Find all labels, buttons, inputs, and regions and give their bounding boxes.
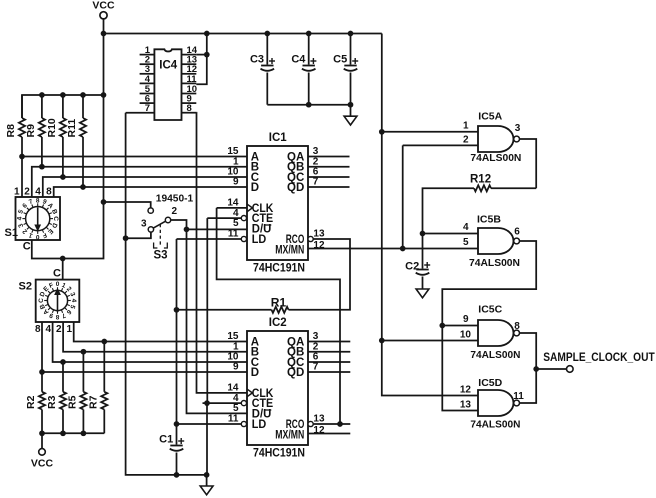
svg-text:R12: R12 (470, 174, 491, 186)
svg-text:2: 2 (56, 324, 62, 335)
wire IC5C pin10 (382, 340, 478, 342)
wire IC5C pin9 (442, 325, 478, 327)
wire IC2 MX/MN stub (308, 433, 350, 435)
wire IC5B output loop (442, 241, 536, 411)
wire bus line B2 (63, 322, 247, 352)
switch S1 wiper arrow (37, 207, 39, 228)
svg-text:7: 7 (313, 177, 319, 188)
wire IC5D output (520, 369, 537, 403)
svg-text:LD: LD (252, 234, 266, 246)
svg-text:R11: R11 (66, 119, 78, 138)
gate U-IC5D (74ALS00 NAND) (478, 390, 513, 416)
IC4 left pins 1-7 (140, 54, 155, 56)
svg-text:C: C (52, 216, 59, 221)
node S2 common tap (60, 256, 66, 262)
svg-text:8: 8 (36, 197, 40, 204)
svg-text:8: 8 (46, 187, 52, 198)
svg-text:1: 1 (14, 187, 20, 198)
svg-text:QD: QD (287, 182, 304, 194)
wire bus line B (32, 167, 247, 197)
VCC power symbol (bottom) (41, 433, 43, 448)
wire IC1 MX/MN to IC5A.2/IC5B.5 (308, 248, 478, 250)
wire IC1 CLK to IC2 RCO route (217, 208, 340, 424)
svg-text:2: 2 (172, 206, 178, 217)
svg-text:3: 3 (515, 123, 521, 134)
svg-text:13: 13 (460, 399, 472, 410)
svg-text:C: C (23, 241, 31, 253)
IC1 CLK wedge (247, 204, 252, 211)
node R10 junction (60, 174, 66, 180)
svg-text:IC5A: IC5A (478, 111, 502, 123)
svg-text:74ALS00N: 74ALS00N (470, 152, 521, 164)
svg-text:11: 11 (513, 391, 524, 402)
IC2 QA-QD stubs (308, 341, 350, 343)
svg-text:8: 8 (514, 321, 520, 332)
svg-text:1: 1 (463, 120, 469, 131)
wire IC5C output (520, 333, 537, 369)
node R9 rail (39, 92, 45, 98)
IC1 LD bubble (241, 236, 246, 241)
svg-text:2: 2 (463, 134, 469, 145)
switch S3 lever (153, 221, 165, 228)
node IC2 RCO junction (337, 421, 343, 427)
node R2/S2 pin8 junction (39, 369, 45, 375)
svg-text:D: D (251, 367, 259, 379)
node R5 junction (81, 349, 87, 355)
svg-text:6: 6 (514, 226, 520, 237)
node C1 ground junction (174, 472, 180, 478)
svg-text:74HC191N: 74HC191N (253, 445, 305, 459)
svg-text:9: 9 (233, 177, 239, 188)
IC2 LD bubble (241, 421, 246, 426)
svg-text:C2: C2 (405, 261, 419, 273)
wire IC4 pin8 to IC2 CLK (196, 113, 247, 393)
wire S2 common (62, 259, 64, 280)
IC5D output bubble (514, 400, 520, 406)
node cap bus junctions (306, 102, 312, 108)
node S3 pin1 tap (101, 199, 107, 205)
resistor R7 (103, 342, 105, 392)
svg-text:IC1: IC1 (269, 132, 288, 144)
svg-text:9: 9 (233, 362, 239, 373)
svg-text:C1: C1 (159, 434, 173, 446)
node R11 junction (80, 184, 86, 190)
svg-text:4: 4 (70, 299, 77, 303)
wire IC1 CLK line (217, 207, 247, 209)
svg-text:IC2: IC2 (269, 317, 287, 329)
wire to output terminal (536, 368, 566, 370)
svg-text:VCC: VCC (31, 458, 54, 470)
capacitor C3 (266, 34, 268, 65)
svg-text:SAMPLE_CLOCK_OUT: SAMPLE_CLOCK_OUT (543, 350, 655, 364)
wire D/U net vertical (187, 229, 248, 413)
node R10 rail (60, 92, 66, 98)
node IC5C pin10 junction (379, 338, 385, 344)
wire IC4 pin14/11 to VCC (196, 54, 207, 56)
svg-text:S1: S1 (5, 227, 18, 239)
IC5C output bubble (514, 330, 520, 336)
svg-text:C4: C4 (291, 54, 306, 66)
resistor R2 (41, 372, 43, 392)
svg-text:74ALS00N: 74ALS00N (470, 349, 520, 361)
node ground rail end junction (204, 472, 210, 478)
node IC5A pin1 junction (379, 129, 385, 135)
resistor R12 (491, 187, 536, 189)
IC5A output bubble (514, 136, 520, 142)
node IC2 CTE junction (204, 400, 210, 406)
svg-text:R7: R7 (88, 395, 100, 409)
svg-text:4: 4 (45, 324, 51, 335)
svg-text:LD: LD (252, 419, 266, 431)
node VCC rail junctions (101, 31, 107, 37)
wire IC1 D/U line (187, 228, 248, 230)
wire IC5A pin1 (382, 131, 478, 133)
svg-text:7: 7 (145, 103, 150, 114)
svg-text:5: 5 (233, 403, 239, 414)
node R12/C2/IC5B.4 junction (420, 231, 426, 237)
wire bus line D (54, 187, 247, 197)
svg-text:0: 0 (36, 233, 40, 240)
svg-text:19450-1: 19450-1 (156, 194, 194, 205)
wire IC2 RCO stub (313, 423, 350, 425)
wire cap ground bus (267, 104, 350, 106)
wire IC1 LD line (177, 238, 242, 240)
IC1 CTE bubble (241, 216, 246, 221)
IC U-IC1 body (74HC191 counter) (247, 146, 308, 260)
svg-text:0: 0 (56, 281, 60, 288)
svg-text:8: 8 (55, 313, 59, 320)
svg-text:9: 9 (463, 314, 469, 325)
svg-text:10: 10 (460, 329, 472, 340)
svg-text:R2: R2 (25, 395, 37, 409)
wire VCC vertical to switch commons (32, 34, 104, 259)
svg-text:11: 11 (228, 414, 239, 425)
svg-text:8: 8 (35, 324, 41, 335)
svg-text:C3: C3 (250, 54, 264, 66)
node bottom rail junctions (39, 430, 45, 436)
node output junction (533, 366, 539, 372)
capacitor C4 (308, 34, 310, 65)
wire IC5B pin4 (423, 233, 479, 235)
wire S3 pin1 to VCC (104, 202, 151, 208)
svg-text:13: 13 (313, 229, 325, 240)
wire bus line D2 (42, 322, 247, 372)
svg-text:R5: R5 (67, 395, 79, 409)
svg-text:C5: C5 (333, 54, 347, 66)
switch S2 rotary (body) (36, 280, 80, 322)
svg-text:3: 3 (141, 219, 147, 230)
IC2 RCO bubble (308, 421, 313, 426)
node IC5A pin2 junction (400, 246, 406, 252)
svg-text:MX/MN: MX/MN (275, 244, 304, 256)
ground (bottom) (206, 475, 208, 486)
resistor R3 (62, 362, 64, 392)
svg-text:1: 1 (66, 324, 72, 335)
gate U-IC5A (74ALS00 NAND) (478, 126, 514, 152)
wire CTE net vertical (206, 218, 208, 403)
svg-text:R3: R3 (46, 395, 58, 409)
resistor R9 (41, 95, 43, 118)
svg-text:R1: R1 (271, 295, 287, 309)
svg-text:5: 5 (463, 237, 469, 248)
wire bus line C2 (53, 322, 247, 362)
gate U-IC5C (74ALS00 NAND) (478, 320, 514, 346)
svg-text:12: 12 (460, 384, 472, 395)
node IC2 LD / C1 junction (174, 421, 180, 427)
capacitor C1 (176, 424, 178, 445)
wire IC2 CTE line (203, 402, 242, 404)
svg-text:2: 2 (24, 187, 30, 198)
wire S3 pin2 to D/U net (171, 220, 187, 229)
switch S2 wiper arrow (57, 292, 59, 312)
svg-text:R9: R9 (25, 124, 37, 138)
svg-text:7: 7 (313, 362, 319, 373)
svg-text:4: 4 (463, 222, 469, 233)
switch S3 pin 1 contact (148, 208, 153, 213)
svg-text:11: 11 (228, 229, 239, 240)
switch S3 momentary bracket (154, 243, 158, 249)
node R11 rail (80, 92, 86, 98)
node R1 left junction (174, 307, 180, 313)
wire pull-up rail (22, 95, 104, 118)
wire IC2 LD line (177, 423, 242, 425)
node IC4 pin14 junction (204, 52, 210, 58)
resistor R5 (82, 352, 84, 392)
svg-text:74ALS00N: 74ALS00N (469, 257, 520, 269)
node R8/S1 pin1 junction (19, 154, 25, 160)
wire bus line C (43, 177, 247, 197)
resistor R8 (21, 95, 23, 118)
wire bus line A (S1.1/R8 to IC1.A) (22, 156, 247, 158)
IC5B output bubble (514, 238, 520, 244)
svg-text:4: 4 (35, 187, 41, 198)
svg-text:IC5C: IC5C (478, 304, 502, 316)
wire LD net vertical (176, 239, 178, 424)
resistor R11 (82, 95, 84, 118)
svg-text:QD: QD (287, 367, 304, 379)
svg-text:S3: S3 (154, 250, 168, 262)
IC4 right pins 14-8 (182, 54, 197, 56)
IC2 CTE bubble (241, 401, 246, 406)
node S3 pin3 junction (123, 235, 129, 241)
wire bottom VCC rail (42, 432, 104, 434)
wire VCC top rail (104, 33, 382, 35)
svg-text:4: 4 (16, 216, 23, 220)
ground (C2) (416, 289, 429, 298)
wire ground net vertical (126, 113, 207, 475)
svg-text:MX/MN: MX/MN (275, 429, 304, 441)
svg-text:IC4: IC4 (159, 59, 178, 71)
svg-text:D: D (251, 182, 259, 194)
svg-text:R10: R10 (46, 118, 58, 137)
svg-text:5: 5 (233, 218, 239, 229)
wire IC5A output to R12 (520, 139, 537, 188)
svg-text:13: 13 (313, 414, 325, 425)
resistor R1 (177, 309, 272, 311)
svg-text:74ALS00N: 74ALS00N (470, 419, 520, 431)
terminal SAMPLE_CLOCK_OUT (567, 366, 574, 373)
IC2 CLK wedge (247, 389, 252, 396)
svg-text:IC5D: IC5D (478, 377, 502, 389)
IC1 RCO bubble (308, 236, 313, 241)
node R3 junction (60, 359, 66, 365)
IC U-IC4 body (oscillator DIP-14) (154, 49, 181, 120)
switch S3 pin 2 contact (165, 217, 170, 222)
svg-text:74HC191N: 74HC191N (253, 260, 305, 274)
node R7 junction (101, 339, 107, 345)
wire S3 pin3 to ground net (126, 232, 151, 238)
IC U-IC2 body (74HC191 counter) (247, 331, 308, 445)
node R9 junction (39, 164, 45, 170)
svg-text:VCC: VCC (92, 0, 115, 12)
node IC1 D/U junction (184, 227, 190, 233)
capacitor C5 (350, 34, 352, 65)
resistor R10 (62, 95, 64, 118)
capacitor C2 (422, 234, 424, 269)
node IC5C pin9 junction (439, 323, 445, 329)
svg-text:IC5B: IC5B (477, 214, 501, 226)
switch S3 pin 3 contact (148, 227, 153, 232)
svg-text:C: C (53, 268, 61, 280)
wire IC5A pin2 (403, 144, 478, 146)
wire VCC right vertical (382, 34, 478, 396)
svg-text:8: 8 (187, 103, 192, 114)
wire bus line A2 (S2.1 to IC2.A) (74, 322, 247, 342)
switch S1 rotary (body) (16, 197, 61, 240)
gate U-IC5B (74ALS00 NAND) (478, 228, 514, 254)
switch S3 actuator dashed line (159, 224, 161, 247)
svg-text:R8: R8 (5, 124, 17, 138)
wire IC1 CTE line (207, 217, 241, 219)
ground (caps) (350, 105, 352, 117)
svg-text:C: C (38, 298, 45, 303)
node VCC pullup-rail tap (101, 92, 107, 98)
IC1 QA-QD stubs (308, 156, 350, 158)
svg-text:S2: S2 (19, 281, 32, 293)
